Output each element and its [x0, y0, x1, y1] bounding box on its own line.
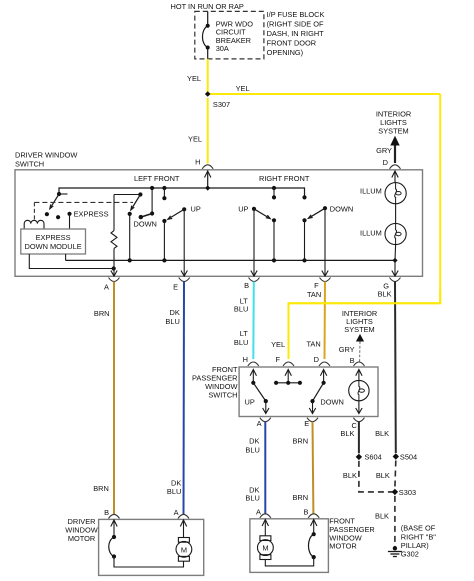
wire YEL overlay at crossings [289, 290, 441, 359]
wire DK BLU passenger A to motor [264, 422, 266, 515]
svg-text:FRONT DOOR: FRONT DOOR [267, 39, 317, 48]
circuit breaker PWR WDO 30A [202, 11, 207, 59]
svg-text:BLU: BLU [245, 494, 259, 503]
svg-text:(RIGHT SIDE OF: (RIGHT SIDE OF [267, 20, 324, 29]
passenger motor pin connectors [260, 514, 271, 518]
svg-text:30A: 30A [216, 44, 229, 53]
svg-text:LT: LT [240, 329, 249, 338]
ground G302 [393, 546, 397, 550]
wire BLK dashed S303 to G302 [394, 496, 396, 547]
wire bottom bus [66, 259, 395, 261]
junction on bus at H riser [205, 185, 210, 190]
wire pin E riser [183, 209, 185, 276]
svg-text:DK: DK [170, 308, 180, 317]
svg-text:WINDOW: WINDOW [65, 525, 97, 534]
pin D connector [390, 165, 401, 169]
wire BLK dashed S504 to S303 [394, 461, 397, 489]
svg-text:M: M [181, 545, 187, 554]
svg-text:G302: G302 [401, 549, 419, 558]
splice S307 [205, 91, 211, 97]
passenger DOWN switch [323, 370, 325, 383]
driver switch bottom pin connectors [109, 278, 120, 282]
module output wire to pin A node [29, 254, 113, 269]
wire BLK dashed S604 to S303 [359, 461, 395, 492]
wire YEL horizontal to passenger switch [289, 302, 441, 304]
passenger UP switch [252, 370, 254, 383]
svg-text:BLU: BLU [245, 446, 259, 455]
svg-text:I/P FUSE BLOCK: I/P FUSE BLOCK [267, 10, 325, 19]
driver window motor box M1 [99, 519, 204, 575]
svg-text:B: B [244, 281, 249, 290]
wire YEL S307 to pin H [207, 98, 209, 164]
svg-text:SWITCH: SWITCH [208, 390, 237, 399]
svg-text:MOTOR: MOTOR [68, 534, 95, 543]
wire BRN passenger E to motor [312, 422, 315, 515]
illumination bulb circuit pin D [394, 172, 396, 183]
wire YEL down to pin F passenger [288, 303, 290, 359]
svg-text:DASH, IN RIGHT: DASH, IN RIGHT [267, 29, 325, 38]
passenger F contact bar [287, 370, 289, 383]
right front UP switch [272, 186, 276, 190]
svg-text:BLK: BLK [375, 512, 389, 521]
svg-text:E: E [173, 283, 178, 292]
svg-text:RIGHT FRONT: RIGHT FRONT [259, 174, 310, 183]
svg-text:BLK: BLK [376, 471, 390, 480]
svg-text:EXPRESS: EXPRESS [74, 210, 109, 219]
left front UP switch [162, 186, 166, 190]
svg-text:YEL: YEL [236, 84, 250, 93]
svg-text:EXPRESS: EXPRESS [36, 233, 71, 242]
svg-text:DOWN: DOWN [134, 219, 157, 228]
left front DOWN switch [138, 192, 142, 196]
svg-text:S604: S604 [365, 453, 382, 462]
resistor R1 [114, 194, 140, 196]
svg-text:H: H [195, 158, 200, 167]
svg-text:H: H [243, 355, 248, 364]
svg-text:B: B [350, 356, 355, 365]
front passenger window switch box U2 [239, 367, 378, 417]
svg-text:BLK: BLK [340, 429, 354, 438]
passenger bottom pin connectors [260, 418, 271, 422]
svg-text:A: A [104, 283, 109, 292]
svg-text:MOTOR: MOTOR [329, 542, 356, 551]
svg-text:E: E [304, 419, 309, 428]
svg-text:DOWN: DOWN [330, 205, 353, 214]
svg-text:BLK: BLK [375, 429, 389, 438]
svg-text:SWITCH: SWITCH [15, 160, 44, 169]
svg-text:TAN: TAN [307, 290, 321, 299]
svg-text:M: M [262, 544, 268, 553]
wire YEL S307 branch right [208, 93, 441, 95]
lamp ILLUM 2 [385, 223, 406, 244]
svg-text:A: A [256, 508, 261, 517]
svg-text:PASSENGER: PASSENGER [192, 373, 237, 382]
svg-text:GRY: GRY [376, 146, 392, 155]
svg-text:S307: S307 [213, 100, 230, 109]
passenger motor M [264, 520, 266, 536]
svg-text:SYSTEM: SYSTEM [344, 325, 374, 334]
svg-text:DOWN MODULE: DOWN MODULE [25, 242, 82, 251]
wire BRN driver A to motor [113, 282, 115, 516]
svg-text:YEL: YEL [271, 340, 285, 349]
svg-text:BRN: BRN [94, 309, 110, 318]
svg-text:OPENING): OPENING) [267, 48, 304, 57]
wire lamp to bus / pin G [394, 245, 397, 261]
svg-text:BLU: BLU [234, 338, 248, 347]
svg-text:ILLUM: ILLUM [360, 229, 382, 238]
wire BLK driver G to S504 [394, 282, 397, 454]
svg-text:BLU: BLU [167, 487, 181, 496]
driver motor M [183, 521, 185, 538]
passenger lamp [358, 370, 360, 380]
svg-text:UP: UP [238, 205, 248, 214]
express contact and wire to module [67, 212, 71, 216]
splice S504 [393, 453, 399, 459]
svg-text:UP: UP [191, 205, 201, 214]
wire DK BLU driver E to motor [183, 282, 186, 516]
wire YEL right vertical [439, 94, 441, 303]
svg-text:BRN: BRN [93, 484, 109, 493]
svg-text:DK: DK [249, 437, 259, 446]
wire TAN driver F to passenger D [324, 282, 327, 360]
svg-text:(BASE OF: (BASE OF [401, 524, 436, 533]
wire YEL breaker to S307 [207, 59, 209, 94]
pin H feed arrow [207, 172, 209, 189]
driver window switch box U1 [15, 170, 423, 276]
svg-text:A: A [257, 419, 262, 428]
driver switch bottom pin arrows [111, 271, 117, 277]
svg-text:SYSTEM: SYSTEM [378, 127, 408, 136]
wire between lamps [395, 204, 397, 224]
svg-text:S303: S303 [399, 488, 416, 497]
wire GRY passenger B up [359, 342, 362, 363]
module ground pin wire [65, 254, 67, 260]
wire GRY pin D up [394, 146, 396, 164]
svg-text:BRN: BRN [292, 493, 308, 502]
svg-text:GRY: GRY [339, 345, 355, 354]
svg-text:ILLUM: ILLUM [360, 186, 382, 195]
pin H connector [202, 165, 213, 169]
wire LT BLU driver B to passenger H [252, 282, 255, 360]
svg-text:F: F [314, 281, 319, 290]
solenoid coil on module [24, 220, 44, 229]
splice S604 [356, 454, 362, 460]
svg-text:YEL: YEL [188, 135, 202, 144]
wire BLK passenger C to S604 [358, 422, 360, 454]
mechanical linkage dashed [34, 201, 133, 203]
svg-text:BLU: BLU [165, 317, 179, 326]
svg-text:TAN: TAN [306, 340, 320, 349]
svg-text:A: A [174, 508, 179, 517]
svg-text:D: D [383, 158, 388, 167]
passenger motor breaker [313, 520, 315, 534]
driver motor pin connectors [109, 514, 120, 518]
wire top feed bus [59, 188, 305, 197]
svg-text:B: B [303, 508, 308, 517]
driver motor breaker [113, 521, 115, 538]
svg-text:D: D [314, 355, 319, 364]
fuse block dashed box [195, 11, 264, 59]
svg-text:S504: S504 [400, 453, 417, 462]
svg-text:B: B [104, 508, 109, 517]
svg-text:BLK: BLK [378, 290, 392, 299]
express switch SW1 [57, 192, 61, 196]
svg-text:HOT IN RUN OR RAP: HOT IN RUN OR RAP [171, 2, 244, 11]
svg-text:BLU: BLU [234, 305, 248, 314]
wire pin F riser [324, 208, 326, 276]
svg-text:DRIVER WINDOW: DRIVER WINDOW [15, 151, 77, 160]
svg-text:LEFT FRONT: LEFT FRONT [134, 174, 180, 183]
splice S303 [392, 489, 398, 495]
lamp ILLUM 1 [385, 183, 406, 204]
svg-text:BRN: BRN [292, 437, 308, 446]
svg-text:UP: UP [245, 397, 255, 406]
svg-text:F: F [275, 355, 280, 364]
svg-text:BLK: BLK [343, 471, 357, 480]
svg-text:DOWN: DOWN [320, 397, 343, 406]
svg-text:YEL: YEL [187, 74, 201, 83]
express down module box [21, 229, 86, 254]
wire pin B riser [253, 209, 255, 277]
front passenger window motor box M2 [250, 519, 329, 573]
passenger switch top pin connectors [248, 362, 259, 366]
